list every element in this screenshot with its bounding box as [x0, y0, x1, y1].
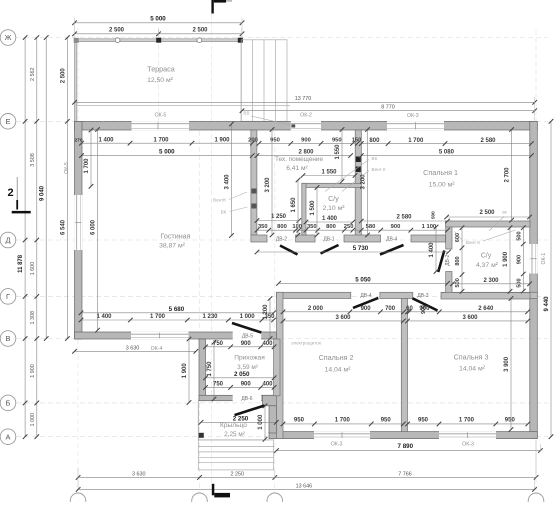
dim 1250 — [257, 220, 299, 222]
svg-text:13 646: 13 646 — [296, 484, 313, 490]
door leaf DV-3 — [413, 298, 438, 310]
dim row2b — [257, 155, 351, 157]
svg-text:1 200: 1 200 — [263, 304, 269, 320]
vent marks tech wall — [251, 189, 256, 194]
svg-text:3 630: 3 630 — [132, 471, 146, 477]
hallway right wall — [274, 339, 280, 396]
window OK-5 top — [132, 121, 190, 130]
svg-text:1 000: 1 000 — [30, 413, 36, 427]
svg-text:Прихожая: Прихожая — [234, 355, 265, 362]
dim row8 bed3 — [408, 311, 528, 313]
svg-text:900: 900 — [421, 305, 427, 314]
svg-text:250: 250 — [344, 224, 354, 230]
svg-text:2 250: 2 250 — [231, 471, 245, 477]
svg-text:11 878: 11 878 — [18, 254, 24, 273]
svg-text:14,04 м²: 14,04 м² — [459, 366, 486, 373]
dim 3600 bed3 — [408, 320, 528, 322]
corridor bottom wall seg3 — [441, 292, 537, 298]
exterior left wall — [75, 122, 83, 340]
svg-text:150: 150 — [352, 138, 362, 144]
svg-text:500: 500 — [431, 211, 436, 219]
vdim su4 inner — [461, 228, 463, 292]
svg-text:2 580: 2 580 — [480, 138, 496, 144]
vdim 1200 — [269, 299, 271, 339]
bedroom divider wall — [401, 299, 407, 432]
svg-text:900: 900 — [241, 382, 252, 388]
svg-text:2 500: 2 500 — [60, 68, 66, 84]
terrace right edge line — [240, 39, 242, 122]
ext lines bottom — [77, 468, 79, 490]
svg-text:15,00 м²: 15,00 м² — [429, 182, 456, 189]
svg-text:1 400: 1 400 — [322, 216, 338, 222]
svg-text:2 700: 2 700 — [505, 167, 511, 183]
dim 3630 ok4 — [75, 350, 196, 352]
exterior right wall — [530, 122, 538, 439]
svg-text:1 900: 1 900 — [182, 363, 188, 379]
svg-text:270: 270 — [74, 138, 82, 144]
svg-text:9 040: 9 040 — [39, 185, 45, 201]
living room bottom wall — [75, 332, 277, 339]
svg-text:1 600: 1 600 — [30, 262, 36, 276]
su 4.37 left wall upper — [446, 221, 452, 249]
su 4.37 top wall — [446, 221, 530, 227]
door leaf DV-2b — [438, 251, 444, 273]
terrace top wall — [75, 39, 243, 42]
svg-text:1 900: 1 900 — [503, 251, 509, 267]
svg-text:500: 500 — [516, 278, 522, 287]
svg-text:2,25 м²: 2,25 м² — [224, 431, 245, 438]
dim 2300 — [453, 283, 530, 285]
svg-text:ВК: ВК — [372, 156, 378, 161]
svg-text:14,04 м²: 14,04 м² — [325, 367, 352, 374]
svg-text:Ж: Ж — [5, 33, 12, 42]
su 2.10 left wall — [302, 183, 306, 235]
window OK-2 top — [291, 121, 321, 130]
svg-text:ОК-1: ОК-1 — [541, 253, 547, 265]
svg-text:ОК-5: ОК-5 — [64, 162, 70, 174]
vdim 9040 — [45, 38, 47, 339]
dim 13646 — [78, 488, 534, 490]
svg-text:3 600: 3 600 — [335, 315, 351, 321]
svg-text:Е: Е — [6, 117, 11, 126]
svg-text:ДВ-4: ДВ-4 — [360, 293, 371, 299]
dim row11 — [81, 319, 274, 321]
svg-text:С/у: С/у — [328, 194, 339, 203]
vdim 1750 hall — [213, 342, 215, 399]
door leaf DV-1 — [321, 245, 339, 254]
svg-text:200: 200 — [248, 138, 258, 144]
svg-text:8 770: 8 770 — [381, 105, 395, 111]
svg-text:Вент К: Вент К — [372, 167, 387, 172]
svg-text:Г: Г — [6, 292, 10, 301]
svg-text:1 700: 1 700 — [84, 158, 90, 174]
vdim 500-900-500 — [522, 228, 524, 291]
svg-text:950: 950 — [418, 418, 429, 424]
terrace post circle — [197, 38, 202, 43]
svg-text:400: 400 — [262, 341, 273, 347]
svg-text:6,41 м²: 6,41 м² — [286, 165, 308, 172]
svg-text:2 800: 2 800 — [298, 150, 314, 156]
svg-text:ОК-4: ОК-4 — [151, 346, 163, 352]
svg-text:1 700: 1 700 — [153, 137, 169, 143]
dim row1 left — [82, 142, 253, 144]
dim row1 mid — [259, 142, 357, 144]
svg-text:2 000: 2 000 — [308, 306, 324, 312]
svg-text:Тех. помещение: Тех. помещение — [275, 156, 324, 163]
svg-text:электрощиток: электрощиток — [291, 341, 322, 346]
dim 2250 porch — [201, 421, 276, 423]
svg-text:2 050: 2 050 — [234, 371, 250, 378]
svg-text:2 562: 2 562 — [30, 68, 36, 82]
svg-text:ВВ: ВВ — [243, 110, 249, 115]
svg-text:2 580: 2 580 — [396, 214, 412, 220]
dim 5730 — [257, 251, 449, 253]
svg-text:ДВ-5: ДВ-5 — [242, 333, 253, 339]
vent mark su2 wall a — [356, 157, 361, 163]
dim hall bot — [206, 386, 275, 388]
svg-text:500: 500 — [516, 231, 522, 240]
axis circles left — [0, 30, 16, 46]
terrace post 2 — [115, 38, 120, 43]
svg-text:1 550: 1 550 — [335, 144, 341, 160]
svg-text:2: 2 — [7, 187, 13, 199]
svg-text:3 508: 3 508 — [30, 153, 36, 167]
dim row8 bed2 — [283, 311, 404, 313]
vdim 1650 — [297, 180, 299, 235]
dim 2580b — [361, 220, 447, 222]
svg-text:100: 100 — [292, 224, 302, 230]
svg-text:6 540: 6 540 — [60, 219, 66, 235]
section marker 1 bottom — [212, 484, 215, 496]
svg-text:3 200: 3 200 — [265, 177, 271, 193]
su 4.37 bottom wall — [441, 293, 530, 300]
corridor bottom wall seg2 — [380, 292, 413, 298]
svg-text:5 680: 5 680 — [169, 306, 185, 313]
svg-text:ОК-5: ОК-5 — [155, 113, 167, 119]
svg-text:ВентК: ВентК — [213, 198, 226, 203]
dim hall top — [206, 346, 275, 348]
svg-text:3 400: 3 400 — [225, 174, 231, 190]
vdim 2700 — [511, 130, 513, 221]
svg-text:2 640: 2 640 — [478, 306, 494, 312]
svg-text:13 770: 13 770 — [295, 96, 312, 102]
svg-text:900: 900 — [516, 255, 522, 264]
svg-text:1 250: 1 250 — [271, 214, 287, 220]
svg-text:3 630: 3 630 — [126, 346, 140, 352]
svg-text:1 400: 1 400 — [98, 137, 114, 143]
dim row2 — [82, 155, 253, 157]
svg-text:750: 750 — [213, 382, 224, 388]
svg-text:А: А — [6, 432, 11, 441]
svg-text:700: 700 — [385, 306, 396, 312]
hallway bottom wall — [199, 395, 280, 400]
dim 3600 bed2 — [283, 320, 403, 322]
dim 8770 — [242, 110, 535, 112]
svg-text:2 500: 2 500 — [479, 210, 495, 216]
leader vk su4 — [489, 217, 504, 232]
su 2.10 top wall — [302, 183, 362, 187]
section marker 1 top — [211, 0, 213, 14]
vent mark top wall — [291, 124, 295, 127]
exterior south wall — [269, 432, 537, 439]
door leaf DV-5 — [232, 323, 261, 333]
dim 13770 — [75, 101, 535, 103]
dim 1400 su — [306, 221, 353, 223]
dim row2c — [361, 155, 531, 157]
svg-text:900: 900 — [391, 224, 401, 230]
svg-text:1 550: 1 550 — [321, 169, 337, 175]
vdim 3900 — [510, 299, 512, 430]
porch steps — [198, 440, 273, 470]
dim 2050 — [206, 377, 275, 379]
svg-text:3 600: 3 600 — [462, 315, 478, 321]
porch outline — [197, 401, 199, 440]
svg-text:1 400: 1 400 — [96, 314, 112, 320]
svg-text:9 440: 9 440 — [544, 296, 550, 312]
door leaf DV-2 — [280, 246, 298, 255]
svg-text:580: 580 — [366, 224, 376, 230]
bedroom2 left wall — [277, 292, 284, 438]
svg-text:ОК-3: ОК-3 — [407, 113, 419, 119]
axis circles bottom — [70, 493, 86, 507]
svg-text:5 080: 5 080 — [439, 150, 455, 156]
svg-text:950: 950 — [505, 418, 516, 424]
window OK-3 south bedroom2 — [314, 431, 370, 439]
vdim 1700 left — [90, 130, 92, 186]
svg-text:ОК-2: ОК-2 — [300, 113, 312, 119]
svg-text:950: 950 — [381, 418, 392, 424]
dim 5050 — [279, 282, 448, 284]
vdim 11878 — [24, 38, 26, 437]
vdim 1900 su4 — [509, 228, 511, 292]
svg-text:7 890: 7 890 — [398, 443, 414, 450]
svg-text:3 900: 3 900 — [504, 356, 510, 372]
north rooms bottom wall seg1 — [251, 235, 267, 242]
terrace post corner — [74, 38, 79, 43]
svg-text:6 000: 6 000 — [91, 219, 97, 235]
svg-text:5 050: 5 050 — [355, 277, 371, 284]
svg-text:5 000: 5 000 — [159, 149, 175, 156]
svg-text:1 230: 1 230 — [202, 314, 218, 320]
svg-text:С/у: С/у — [481, 253, 492, 260]
svg-text:350: 350 — [258, 224, 268, 230]
north rooms bottom wall seg2 — [296, 235, 315, 242]
su 4.37 left wall lower — [446, 272, 452, 299]
dim row1 right — [361, 143, 531, 145]
svg-text:1 900: 1 900 — [214, 137, 230, 143]
svg-text:1 000: 1 000 — [258, 414, 264, 430]
vdim 3200 tech — [271, 130, 273, 236]
svg-text:1 650: 1 650 — [291, 197, 297, 213]
door leaf DV-4b — [353, 298, 378, 308]
dim bed3 bottom — [408, 423, 528, 425]
terrace side steps — [241, 40, 287, 122]
svg-text:Б: Б — [6, 399, 11, 408]
svg-text:ДВ-2: ДВ-2 — [445, 254, 451, 265]
svg-text:1 750: 1 750 — [207, 361, 213, 377]
ext line right top — [534, 97, 536, 122]
svg-text:Д: Д — [5, 236, 10, 245]
svg-text:900: 900 — [301, 138, 311, 144]
exterior top wall (axis E) — [75, 122, 538, 131]
window OK-3 south bedroom3 — [439, 431, 496, 439]
north rooms bottom wall seg3 — [344, 235, 381, 242]
vdim segments — [36, 38, 38, 437]
svg-text:2 500: 2 500 — [109, 28, 125, 34]
terrace post 3 — [156, 38, 161, 43]
porch right wall — [269, 406, 277, 433]
dim row5 — [257, 229, 448, 231]
svg-text:950: 950 — [270, 138, 280, 144]
svg-text:ДВ-6: ДВ-6 — [241, 396, 252, 402]
svg-text:1 000: 1 000 — [240, 314, 256, 320]
svg-text:Спальня 1: Спальня 1 — [423, 168, 458, 177]
svg-text:950: 950 — [332, 138, 342, 144]
window OK-3 top — [387, 121, 444, 130]
svg-text:900: 900 — [241, 341, 252, 347]
svg-text:350: 350 — [307, 224, 317, 230]
svg-text:ДВ-4: ДВ-4 — [386, 237, 397, 243]
svg-text:950: 950 — [294, 418, 305, 424]
svg-text:ДВ-1: ДВ-1 — [323, 237, 334, 243]
svg-text:ОК-3: ОК-3 — [462, 441, 474, 447]
dim 5000 terrace — [75, 22, 243, 24]
door leaf DV-6 — [235, 406, 265, 416]
svg-text:1 500: 1 500 — [310, 200, 316, 216]
svg-text:3,59 м²: 3,59 м² — [237, 364, 258, 371]
door gap DV-5 — [233, 331, 262, 339]
ext lines top — [74, 18, 76, 39]
dim 2500+2500 terrace — [75, 33, 243, 35]
vent mark su2 wall b — [356, 167, 361, 173]
window OK-4 — [131, 332, 189, 340]
svg-text:60: 60 — [406, 306, 413, 312]
svg-text:1 700: 1 700 — [335, 418, 351, 424]
hallway left wall — [199, 339, 206, 401]
svg-text:800: 800 — [369, 138, 380, 144]
window OK-1 right wall — [529, 244, 537, 274]
svg-text:7 766: 7 766 — [398, 471, 412, 477]
tech room left wall — [251, 130, 257, 235]
svg-text:1 900: 1 900 — [30, 364, 36, 378]
svg-text:1 308: 1 308 — [30, 311, 36, 325]
svg-text:800: 800 — [277, 224, 287, 230]
svg-text:1 700: 1 700 — [408, 138, 424, 144]
vdim 3200 bed1 — [367, 130, 369, 236]
dim 7766+3630+2250 — [78, 476, 536, 478]
dim bed2 bottom — [283, 423, 403, 425]
svg-text:2 300: 2 300 — [483, 278, 499, 284]
vdim 1500 — [316, 188, 318, 236]
svg-text:Спальня 3: Спальня 3 — [454, 353, 489, 362]
svg-text:Терраса: Терраса — [147, 65, 175, 74]
window OK-5 left wall — [74, 195, 82, 250]
svg-text:12,50 м²: 12,50 м² — [147, 77, 174, 84]
vdim 1000 porch — [264, 406, 266, 440]
grid axis dashed lines — [16, 37, 548, 39]
dim 5680 — [81, 312, 274, 314]
porch corner post — [199, 433, 204, 438]
svg-text:ВК: ВК — [221, 210, 227, 215]
svg-text:5 730: 5 730 — [353, 245, 369, 252]
svg-text:В: В — [6, 334, 11, 343]
dim 7890 line — [277, 450, 541, 452]
svg-text:ОК-3: ОК-3 — [331, 441, 343, 447]
vdim 1550 su — [341, 130, 343, 182]
door leaf DV-4a — [380, 245, 404, 255]
svg-text:ДВ-3: ДВ-3 — [417, 293, 428, 299]
wall between su/tech and bedroom1 — [355, 130, 361, 242]
corridor bottom wall seg1 — [277, 292, 351, 298]
vdim 2500+6540 — [66, 38, 68, 339]
svg-text:38,87 м²: 38,87 м² — [159, 243, 186, 250]
dim 2500 su4 — [447, 216, 530, 218]
terrace post 5 — [238, 38, 243, 43]
vdim 9440 — [550, 121, 552, 436]
vdim 1400 su4 — [435, 227, 437, 272]
vdim 1900 hall — [188, 339, 190, 403]
svg-text:500: 500 — [455, 278, 461, 287]
dim 1550 su width — [303, 175, 355, 177]
svg-text:Вент К: Вент К — [466, 240, 481, 245]
hallway SE corner block — [263, 395, 281, 406]
vdim 6000 — [97, 130, 99, 331]
svg-text:1 700: 1 700 — [150, 314, 166, 320]
terrace left wall — [75, 39, 77, 122]
svg-text:4,37 м²: 4,37 м² — [476, 262, 499, 269]
svg-text:ДВ-2: ДВ-2 — [276, 237, 287, 243]
vdim 3400 — [231, 124, 233, 236]
svg-text:800: 800 — [326, 224, 336, 230]
svg-text:Спальня 2: Спальня 2 — [319, 353, 354, 362]
svg-text:900: 900 — [361, 306, 372, 312]
svg-text:2 500: 2 500 — [192, 28, 208, 34]
svg-text:2,10 м²: 2,10 м² — [322, 205, 345, 212]
svg-text:1 400: 1 400 — [429, 242, 435, 258]
svg-text:Гостиная: Гостиная — [160, 232, 190, 241]
door gap DV-6 — [233, 395, 262, 402]
svg-text:400: 400 — [262, 382, 273, 388]
svg-text:1 700: 1 700 — [459, 418, 475, 424]
north rooms bottom wall seg4 — [411, 235, 446, 242]
svg-text:5 000: 5 000 — [150, 16, 166, 23]
svg-text:Крыльцо: Крыльцо — [220, 422, 247, 429]
svg-text:800: 800 — [455, 256, 461, 265]
